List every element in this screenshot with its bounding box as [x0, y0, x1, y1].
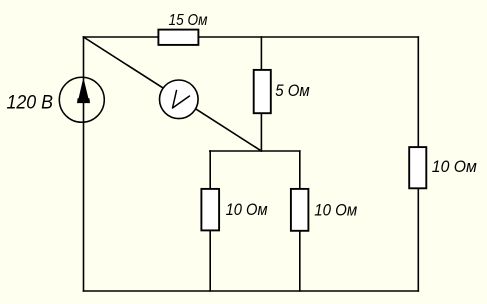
svg-text:5 Ом: 5 Ом: [275, 81, 310, 100]
voltmeter V1 (circle): [160, 80, 199, 119]
svg-text:10 Ом: 10 Ом: [226, 200, 268, 219]
resistor R4 10 Ом (right parallel): [291, 189, 309, 231]
wire left parallel branch: [209, 151, 211, 291]
wire source stub through circle: [83, 77, 85, 81]
resistor R5 10 Ом (right branch): [409, 147, 426, 188]
wire right parallel branch: [299, 151, 301, 291]
svg-text:120 В: 120 В: [7, 93, 54, 114]
svg-text:15 Ом: 15 Ом: [169, 12, 208, 29]
svg-text:10 Ом: 10 Ом: [314, 201, 357, 220]
wire left branch (source branch): [83, 37, 85, 291]
voltage source E1 (circle): [59, 77, 104, 122]
wire middle vertical (5 Ом branch): [260, 37, 262, 151]
wire node bar (parallel pair top): [210, 150, 300, 152]
wire right branch: [417, 37, 419, 291]
voltmeter V1 needle mark (V glyph): [173, 91, 190, 109]
resistor R3 10 Ом (left parallel): [201, 189, 219, 231]
voltage source E1 arrow: [77, 81, 90, 103]
wire source stub below arrow: [83, 103, 85, 123]
wire bottom rail: [84, 290, 419, 292]
wire top (node top rail): [84, 36, 419, 38]
svg-text:10 Ом: 10 Ом: [432, 157, 477, 176]
wire voltmeter diagonal: [84, 37, 262, 151]
resistor R2 5 Ом: [254, 70, 271, 113]
resistor R1 15 Ом: [158, 30, 198, 45]
